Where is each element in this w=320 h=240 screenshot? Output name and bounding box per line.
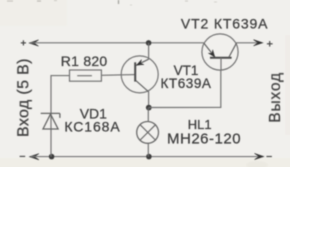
wire: R1 to VT1 base (101, 74, 135, 77)
transistor VT1 collector (136, 81, 149, 108)
svg-text:Вход (5 В): Вход (5 В) (15, 58, 32, 137)
node junction: VT1 emitter to top rail (146, 40, 152, 46)
transistor VT2 base lead (220, 58, 222, 71)
plus sign (output, top-right) (267, 41, 273, 47)
transistor VT1 (body) (121, 56, 158, 93)
resistor R1 (70, 70, 102, 81)
scan artifacts top edge (7, 0, 217, 5)
lamp HL1 (body) (137, 108, 159, 157)
input arrow (top-left, pointing left) (29, 40, 38, 46)
wire: top rail right section (236, 42, 258, 44)
minus sign (input, bottom-left) (20, 155, 26, 157)
transistor VT2 emitter (arrow to base) (204, 43, 215, 57)
svg-text:Выход: Выход (267, 72, 284, 123)
plus sign (input, top-left) (21, 40, 26, 45)
svg-text:МН26-120: МН26-120 (167, 130, 241, 147)
output arrow (top-right, pointing right) (254, 40, 263, 46)
transistor VT1 base bar (134, 62, 136, 81)
svg-text:R1 820: R1 820 (61, 53, 108, 69)
zener diode VD1 (41, 113, 60, 129)
wire: node to VT2 base (149, 71, 221, 108)
output arrow (bottom-right, pointing right) (255, 153, 264, 159)
wire: left branch vertical (R1/VD1 leg) (51, 76, 70, 157)
svg-text:VT2 КТ639А: VT2 КТ639А (181, 15, 268, 31)
transistor VT2 collector (229, 43, 237, 58)
background paper (0, 0, 290, 167)
svg-text:КТ639А: КТ639А (161, 76, 212, 91)
minus sign (output, bottom-right) (266, 156, 272, 158)
node junction: HL1 to bottom rail (146, 154, 152, 160)
transistor VT2 base bar (210, 57, 232, 59)
input arrow (bottom-left, pointing left) (30, 154, 39, 160)
node junction: VT1 collector / HL1 / VT2 base (146, 105, 152, 111)
svg-text:КС168А: КС168А (64, 119, 120, 135)
transistor VT2 (body) (202, 34, 238, 70)
transistor VT1 emitter (arrow to base) (136, 43, 149, 65)
wire: bottom rail (31, 156, 259, 158)
node junction: VD1 to bottom rail (49, 154, 55, 160)
wire: top rail left section (31, 42, 204, 44)
